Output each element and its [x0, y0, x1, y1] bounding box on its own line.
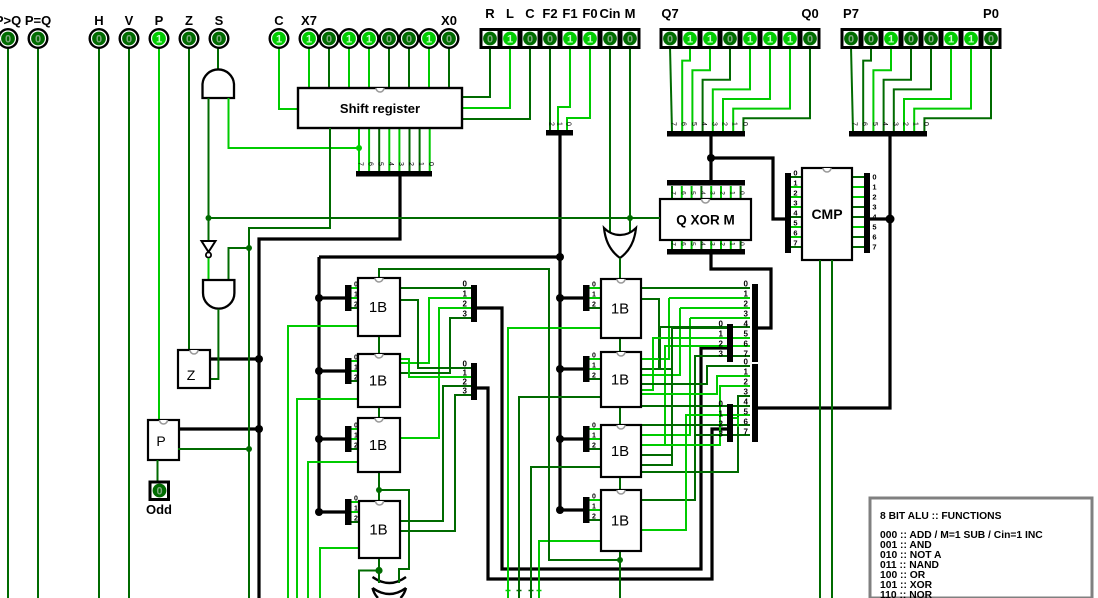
svg-text:3: 3: [397, 162, 404, 166]
svg-text:0: 0: [667, 34, 673, 46]
svg-text:F2: F2: [542, 6, 557, 21]
svg-text:2: 2: [793, 189, 797, 198]
svg-text:7: 7: [793, 239, 797, 248]
svg-text:110 :: NOR: 110 :: NOR: [880, 590, 933, 598]
svg-text:P7: P7: [843, 6, 859, 21]
svg-text:6: 6: [872, 233, 876, 242]
svg-text:3: 3: [744, 388, 749, 397]
svg-text:2: 2: [744, 378, 749, 387]
svg-text:0: 0: [386, 34, 392, 46]
svg-text:4: 4: [387, 162, 394, 166]
svg-text:0: 0: [807, 34, 813, 46]
svg-text:7: 7: [872, 243, 876, 252]
svg-text:4: 4: [881, 122, 888, 126]
svg-text:H: H: [94, 13, 103, 28]
svg-text:1: 1: [912, 122, 919, 126]
svg-text:2: 2: [902, 122, 909, 126]
svg-text:3: 3: [709, 191, 716, 195]
svg-text:5: 5: [690, 122, 697, 126]
svg-text:1: 1: [888, 34, 894, 46]
svg-text:C: C: [525, 6, 535, 21]
svg-text:7: 7: [670, 191, 677, 195]
svg-text:7: 7: [851, 122, 858, 126]
svg-text:1B: 1B: [369, 522, 387, 539]
svg-text:1B: 1B: [369, 373, 387, 390]
svg-text:0: 0: [793, 169, 797, 178]
svg-text:Q7: Q7: [661, 6, 678, 21]
svg-text:1: 1: [587, 34, 593, 46]
svg-text:2: 2: [407, 162, 414, 166]
svg-text:1: 1: [276, 34, 282, 46]
svg-text:1B: 1B: [369, 437, 387, 454]
svg-text:Z: Z: [185, 13, 193, 28]
svg-text:3: 3: [793, 199, 797, 208]
svg-text:4: 4: [699, 242, 706, 246]
svg-text:1B: 1B: [611, 301, 629, 318]
svg-text:1: 1: [719, 410, 724, 419]
svg-text:1: 1: [354, 506, 358, 513]
svg-text:2: 2: [719, 340, 724, 349]
svg-text:3: 3: [719, 350, 724, 359]
svg-text:2: 2: [592, 443, 596, 450]
svg-text:0: 0: [406, 34, 412, 46]
svg-text:1: 1: [463, 369, 468, 378]
svg-text:6: 6: [679, 191, 686, 195]
svg-text:0: 0: [565, 122, 572, 126]
svg-text:3: 3: [719, 430, 724, 439]
svg-text:0: 0: [928, 34, 934, 46]
svg-text:M: M: [625, 6, 636, 21]
svg-text:1: 1: [787, 34, 793, 46]
svg-text:0: 0: [216, 34, 222, 46]
svg-text:1B: 1B: [369, 299, 387, 316]
svg-text:5: 5: [744, 408, 749, 417]
svg-text:2: 2: [721, 122, 728, 126]
svg-text:0: 0: [592, 282, 596, 289]
svg-text:0: 0: [741, 122, 748, 126]
svg-text:1: 1: [793, 179, 797, 188]
svg-text:0: 0: [463, 280, 468, 289]
svg-text:1: 1: [719, 330, 724, 339]
svg-text:6: 6: [367, 162, 374, 166]
svg-text:2: 2: [872, 193, 876, 202]
svg-text:1: 1: [872, 183, 876, 192]
svg-text:X0: X0: [441, 13, 457, 28]
svg-text:2: 2: [354, 516, 358, 523]
svg-text:V: V: [125, 13, 134, 28]
svg-text:0: 0: [872, 173, 876, 182]
svg-text:1: 1: [306, 34, 312, 46]
svg-text:5: 5: [377, 162, 384, 166]
svg-text:1: 1: [567, 34, 573, 46]
svg-text:5: 5: [793, 219, 797, 228]
svg-text:2: 2: [744, 300, 749, 309]
svg-text:2: 2: [719, 242, 726, 246]
svg-text:P>Q: P>Q: [0, 13, 21, 28]
svg-text:1: 1: [707, 34, 713, 46]
svg-text:1: 1: [366, 34, 372, 46]
svg-text:7: 7: [670, 122, 677, 126]
svg-text:1: 1: [728, 191, 735, 195]
svg-text:1: 1: [767, 34, 773, 46]
svg-text:7: 7: [670, 242, 677, 246]
svg-text:0: 0: [487, 34, 493, 46]
svg-text:1: 1: [968, 34, 974, 46]
svg-text:3: 3: [463, 387, 468, 396]
svg-text:X7: X7: [301, 13, 317, 28]
svg-text:6: 6: [744, 418, 749, 427]
svg-text:1: 1: [463, 290, 468, 299]
svg-text:2: 2: [548, 122, 555, 126]
svg-text:R: R: [485, 6, 495, 21]
svg-text:5: 5: [689, 191, 696, 195]
svg-text:CMP: CMP: [811, 206, 842, 222]
svg-text:4: 4: [744, 398, 749, 407]
svg-text:P: P: [156, 433, 165, 449]
svg-text:1: 1: [592, 433, 596, 440]
svg-text:0: 0: [738, 191, 745, 195]
svg-text:1: 1: [346, 34, 352, 46]
svg-text:0: 0: [463, 360, 468, 369]
svg-text:P0: P0: [983, 6, 999, 21]
svg-text:6: 6: [679, 242, 686, 246]
svg-text:0: 0: [848, 34, 854, 46]
svg-text:2: 2: [592, 514, 596, 521]
svg-text:1: 1: [426, 34, 432, 46]
svg-text:2: 2: [719, 420, 724, 429]
svg-text:6: 6: [680, 122, 687, 126]
svg-text:1: 1: [744, 368, 749, 377]
svg-text:2: 2: [592, 373, 596, 380]
svg-text:0: 0: [547, 34, 553, 46]
svg-text:0: 0: [96, 34, 102, 46]
svg-text:5: 5: [871, 122, 878, 126]
svg-text:5: 5: [689, 242, 696, 246]
svg-text:3: 3: [710, 122, 717, 126]
svg-text:1: 1: [687, 34, 693, 46]
svg-text:1: 1: [592, 504, 596, 511]
svg-text:L: L: [506, 6, 514, 21]
svg-text:0: 0: [35, 34, 41, 46]
svg-text:S: S: [215, 13, 224, 28]
svg-text:3: 3: [891, 122, 898, 126]
svg-text:Q0: Q0: [801, 6, 818, 21]
svg-text:0: 0: [719, 400, 724, 409]
svg-text:0: 0: [427, 162, 434, 166]
svg-text:2: 2: [592, 302, 596, 309]
svg-text:0: 0: [738, 242, 745, 246]
svg-text:1: 1: [731, 122, 738, 126]
svg-text:1: 1: [156, 34, 162, 46]
svg-text:0: 0: [326, 34, 332, 46]
svg-text:5: 5: [744, 330, 749, 339]
svg-text:Shift register: Shift register: [340, 101, 420, 116]
svg-text:1B: 1B: [611, 513, 629, 530]
svg-text:Q XOR M: Q XOR M: [676, 213, 735, 228]
svg-text:1: 1: [948, 34, 954, 46]
svg-text:0: 0: [988, 34, 994, 46]
svg-text:P: P: [155, 13, 164, 28]
svg-text:3: 3: [744, 310, 749, 319]
svg-text:2: 2: [463, 378, 468, 387]
svg-text:P=Q: P=Q: [25, 13, 51, 28]
svg-text:4: 4: [699, 191, 706, 195]
svg-text:0: 0: [156, 486, 162, 498]
svg-text:0: 0: [922, 122, 929, 126]
svg-text:6: 6: [861, 122, 868, 126]
svg-text:Cin: Cin: [600, 6, 621, 21]
svg-text:0: 0: [186, 34, 192, 46]
svg-text:1: 1: [592, 363, 596, 370]
svg-text:6: 6: [744, 340, 749, 349]
svg-text:1: 1: [507, 34, 513, 46]
svg-text:0: 0: [607, 34, 613, 46]
svg-text:F0: F0: [582, 6, 597, 21]
svg-text:1: 1: [728, 242, 735, 246]
svg-text:6: 6: [793, 229, 797, 238]
svg-text:0: 0: [592, 353, 596, 360]
svg-text:0: 0: [354, 496, 358, 503]
svg-text:1: 1: [592, 292, 596, 299]
svg-text:1B: 1B: [611, 443, 629, 460]
svg-text:1: 1: [417, 162, 424, 166]
svg-text:3: 3: [709, 242, 716, 246]
svg-text:0: 0: [744, 358, 749, 367]
svg-text:1: 1: [556, 122, 563, 126]
svg-text:1: 1: [744, 290, 749, 299]
svg-text:0: 0: [592, 423, 596, 430]
svg-text:4: 4: [744, 320, 749, 329]
svg-text:0: 0: [627, 34, 633, 46]
svg-text:2: 2: [719, 191, 726, 195]
svg-text:C: C: [274, 13, 284, 28]
svg-text:0: 0: [744, 280, 749, 289]
svg-text:Odd: Odd: [146, 502, 172, 517]
svg-text:5: 5: [872, 223, 876, 232]
svg-text:0: 0: [5, 34, 11, 46]
svg-text:1: 1: [747, 34, 753, 46]
svg-text:7: 7: [744, 428, 749, 437]
svg-text:0: 0: [126, 34, 132, 46]
svg-text:Z: Z: [187, 367, 196, 383]
svg-text:0: 0: [446, 34, 452, 46]
svg-text:4: 4: [700, 122, 707, 126]
svg-text:0: 0: [719, 320, 724, 329]
svg-text:0: 0: [908, 34, 914, 46]
svg-text:8 BIT ALU :: FUNCTIONS: 8 BIT ALU :: FUNCTIONS: [880, 511, 1002, 522]
svg-text:0: 0: [592, 494, 596, 501]
svg-text:7: 7: [357, 162, 364, 166]
svg-text:0: 0: [527, 34, 533, 46]
svg-text:3: 3: [463, 310, 468, 319]
svg-text:F1: F1: [562, 6, 577, 21]
svg-text:2: 2: [463, 300, 468, 309]
svg-text:3: 3: [872, 203, 876, 212]
svg-text:1B: 1B: [611, 372, 629, 389]
svg-text:0: 0: [727, 34, 733, 46]
svg-text:0: 0: [868, 34, 874, 46]
